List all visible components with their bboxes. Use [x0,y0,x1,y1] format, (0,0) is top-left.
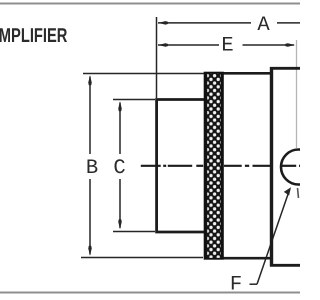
svg-text:F: F [230,274,242,297]
svg-text:B: B [86,157,98,180]
svg-text:A: A [257,14,270,37]
svg-text:C: C [113,157,125,180]
svg-text:E: E [221,35,233,58]
svg-text:MPLIFIER: MPLIFIER [0,25,68,47]
